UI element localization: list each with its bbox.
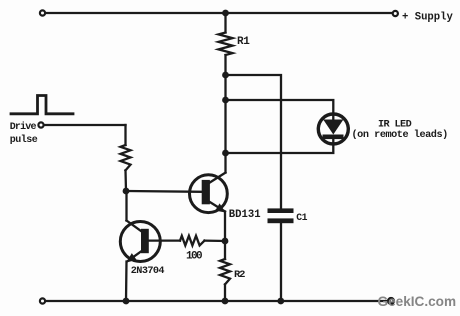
svg-text:100: 100 (186, 251, 202, 263)
svg-text:(on remote leads): (on remote leads) (352, 129, 448, 141)
svg-text:C1: C1 (296, 212, 307, 223)
svg-text:pulse: pulse (10, 134, 38, 146)
svg-text:Drive: Drive (10, 121, 37, 133)
svg-text:GeekIC.com: GeekIC.com (378, 294, 457, 309)
svg-text:IR LED: IR LED (378, 120, 412, 131)
svg-text:R2: R2 (234, 269, 245, 281)
svg-text:+ Supply: + Supply (402, 12, 454, 24)
svg-text:2N3704: 2N3704 (131, 266, 165, 277)
svg-text:R1: R1 (237, 36, 250, 48)
svg-text:BD131: BD131 (229, 209, 261, 221)
